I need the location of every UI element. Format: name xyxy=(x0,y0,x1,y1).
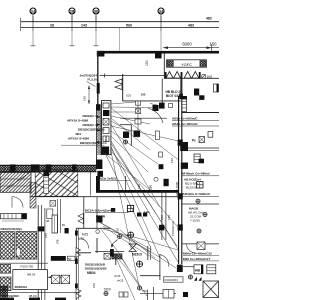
left wall lower double line a xyxy=(96,110,98,169)
wall76 pier 1 xyxy=(75,231,78,236)
extra homerun a xyxy=(111,148,178,262)
fixture mid bottom xyxy=(136,261,143,268)
bottom dark dash 2 xyxy=(29,298,40,300)
svg-text:48: 48 xyxy=(46,219,50,223)
double door symbol 2 xyxy=(184,72,199,79)
corridor end block xyxy=(177,265,183,272)
device column stem xyxy=(137,101,139,138)
room dark block xyxy=(123,132,129,139)
center room wall vertical 97 xyxy=(96,197,98,229)
device column box 2 xyxy=(136,109,141,114)
grid bubble 1 xyxy=(30,8,36,22)
svg-text:BP3+1: BP3+1 xyxy=(52,257,62,261)
symbol slash xyxy=(202,74,206,78)
leader to damper xyxy=(150,104,159,106)
stair block divider b xyxy=(0,185,31,187)
room divider line left xyxy=(89,169,91,195)
door bowtie on wall 76 upper xyxy=(76,248,81,258)
grid line tick C xyxy=(95,16,97,31)
top wall corner block xyxy=(97,51,105,57)
corridor damper 2 xyxy=(180,142,188,151)
fixture bottom right xyxy=(188,275,192,279)
left corridor line a xyxy=(37,205,39,300)
fan line 10 xyxy=(111,146,160,258)
left wall bottom block xyxy=(96,160,102,170)
band pier 3 xyxy=(46,164,52,172)
box bottom mid inner xyxy=(168,290,170,299)
fan line 5 xyxy=(111,121,131,132)
svg-text:Y.25/20: Y.25/20 xyxy=(190,219,200,223)
arrowhead to shaft 1 xyxy=(97,116,101,118)
svg-text:Pc: Pc xyxy=(192,139,196,143)
svg-text:AB3a Ce=580m/C: AB3a Ce=580m/C xyxy=(172,116,198,120)
svg-text:50: 50 xyxy=(68,257,72,261)
right room wall 244 xyxy=(182,243,219,245)
lower band hatch xyxy=(0,165,97,171)
HB dark block xyxy=(194,89,199,96)
svg-text:d=25: d=25 xyxy=(117,278,124,282)
grid extension line B xyxy=(71,31,73,46)
top right dim arrow right xyxy=(207,46,212,49)
room divider vline b xyxy=(165,190,167,240)
leader under strip xyxy=(2,220,24,222)
boxed fixture center xyxy=(127,205,133,211)
faint grid stub xyxy=(119,28,121,51)
small box mid xyxy=(159,152,163,157)
extra web line 6 xyxy=(99,222,150,252)
crossed box bottom 2 X xyxy=(61,275,69,283)
small X box left xyxy=(0,264,11,273)
dark squares pair center xyxy=(137,213,141,217)
grid extension line C xyxy=(95,31,97,46)
small box right of corridor xyxy=(47,209,53,219)
extra web line 2 xyxy=(111,124,160,207)
band pier 1 xyxy=(10,164,16,172)
svg-text:3x4(2)x 3x4(2): 3x4(2)x 3x4(2) xyxy=(96,176,116,180)
door wall bottom right vertical xyxy=(159,254,161,280)
stair flight strip xyxy=(30,183,36,209)
right room wall 150 xyxy=(188,149,219,151)
bottom right X box xyxy=(203,281,219,298)
wall horizontal 228 xyxy=(76,227,111,229)
door arc left xyxy=(12,197,23,208)
HB box dark edge xyxy=(201,265,203,274)
vline bottom mid xyxy=(153,287,155,300)
svg-text:D853(2)/3(2)/B2: D853(2)/3(2)/B2 xyxy=(85,267,107,271)
left corridor line b xyxy=(40,205,42,300)
grid line tick A xyxy=(32,16,34,31)
box bottom mid xyxy=(163,290,174,299)
corridor band thick wall xyxy=(96,190,179,193)
stair block divider xyxy=(0,178,31,180)
corridor damper 1 xyxy=(178,140,183,146)
svg-text:24: 24 xyxy=(31,9,36,14)
MC3A underline xyxy=(85,212,129,214)
svg-text:34: 34 xyxy=(159,9,164,14)
fan line 2 xyxy=(111,106,153,109)
device column box 2 cross xyxy=(136,109,141,114)
small circle room xyxy=(96,230,100,234)
small dark triangles xyxy=(194,277,202,281)
tall equipment box xyxy=(52,215,57,233)
svg-text:AB4b Ce=360m/C: AB4b Ce=360m/C xyxy=(172,122,198,126)
corridor band thin wall xyxy=(30,196,179,198)
extra diag bottom b xyxy=(120,256,147,296)
hall wall vertical 83 xyxy=(83,197,85,229)
long homerun curve 5 xyxy=(116,256,140,287)
svg-text:MC3A-3(2)x4(2)x4(2): MC3A-3(2)x4(2)x4(2) xyxy=(85,208,115,212)
wall junction pier xyxy=(179,94,183,100)
extra diag bottom a xyxy=(116,258,135,300)
bent leader arrowhead xyxy=(111,244,114,248)
Pc box xyxy=(199,137,204,143)
small eq box cross xyxy=(50,201,56,207)
svg-text:BL: BL xyxy=(62,223,66,227)
inner wall line top rooms xyxy=(100,75,165,77)
right band sill line xyxy=(164,77,219,79)
bent leader arrow xyxy=(112,240,118,248)
long homerun curve 3 xyxy=(100,228,128,268)
fixture right 4 xyxy=(196,199,200,203)
box next to HB xyxy=(207,265,216,274)
wall segment x97 low xyxy=(96,238,98,253)
equipment strip ticks xyxy=(4,214,16,219)
extra web line 5 xyxy=(96,220,176,268)
hall hatch room xyxy=(35,170,78,197)
bottom left hatch strip low xyxy=(0,277,11,291)
right room door arc 244 xyxy=(187,244,196,253)
svg-text:150: 150 xyxy=(83,96,87,101)
top right dim line xyxy=(163,47,219,49)
small box mid room xyxy=(169,104,173,108)
grid extension line D xyxy=(160,31,162,51)
right tray dark blob xyxy=(199,159,204,164)
svg-text:150: 150 xyxy=(92,283,96,288)
door swing bottom right xyxy=(160,255,169,267)
device column box 3 xyxy=(135,119,141,124)
svg-text:HB: HB xyxy=(195,269,200,273)
svg-text:ARY3A S=85M: ARY3A S=85M xyxy=(68,137,89,141)
bottom right row 2 underline xyxy=(183,260,219,262)
svg-text:03/200/04: 03/200/04 xyxy=(165,278,179,282)
fixture bottom 1 xyxy=(137,286,141,290)
lower band wall line b xyxy=(0,171,97,173)
BP3 label box xyxy=(51,256,66,261)
fan line 4 xyxy=(111,116,150,124)
door leaf left xyxy=(11,197,13,208)
extra homerun b xyxy=(106,155,150,246)
arrowhead to shaft 4 xyxy=(97,141,101,143)
room corner wall vertical xyxy=(130,125,132,147)
dimension band line upper xyxy=(21,21,219,23)
damper block at 162 xyxy=(159,103,165,109)
fixture right 5 xyxy=(203,212,207,216)
svg-text:ARY3A S=85M: ARY3A S=85M xyxy=(67,119,88,123)
right room wall 112 xyxy=(182,112,219,114)
tray under HB room xyxy=(182,98,187,111)
interior wall vertical at 122 xyxy=(122,74,124,101)
svg-text:3200 1500: 3200 1500 xyxy=(175,181,179,196)
bottom mid vline xyxy=(147,290,149,300)
dim arrow r xyxy=(60,276,64,278)
dim arrow l xyxy=(47,276,51,278)
small box pair bottom a xyxy=(119,292,123,297)
left wall mid segment xyxy=(97,94,99,105)
bottom left corner blob xyxy=(0,286,8,297)
grid extension tick A xyxy=(31,45,36,47)
extra homerun c xyxy=(111,143,177,246)
box cross center xyxy=(104,253,111,259)
hall ladder cap xyxy=(43,170,49,176)
fan line 1 xyxy=(111,102,136,104)
tick on inner line xyxy=(104,74,106,78)
room corner wall horizontal xyxy=(120,124,131,126)
right tray rungs xyxy=(194,157,200,160)
svg-text:DB3(2)C(3)BV(3x4): DB3(2)C(3)BV(3x4) xyxy=(78,128,105,132)
dim arrows bottom xyxy=(47,276,64,278)
fixture center low xyxy=(117,234,121,238)
room rect bottom left xyxy=(13,270,48,290)
left room wall vertical 76 xyxy=(75,228,77,300)
svg-text:BL25/20: BL25/20 xyxy=(186,185,198,189)
right box with cross xyxy=(197,242,205,250)
extra web line 3 xyxy=(103,152,150,190)
tray under HB rungs xyxy=(182,101,187,108)
small eq boxes xyxy=(50,201,56,207)
wall76 pier 3 xyxy=(75,284,78,289)
small box upper right xyxy=(208,132,213,138)
left wall lower hatch xyxy=(97,111,101,156)
device column top box xyxy=(136,101,141,105)
grid extension tick B xyxy=(70,45,75,47)
svg-text:HB.03: HB.03 xyxy=(27,273,36,277)
extra web line 4 xyxy=(111,118,150,150)
wall76 pier 2 xyxy=(75,259,78,264)
left vertical dim arrow down xyxy=(88,101,90,105)
door post 1 xyxy=(165,72,167,78)
building top wall xyxy=(97,51,219,54)
door wall bottom right horizontal xyxy=(140,275,161,277)
fan line 6 xyxy=(111,126,179,141)
top right dim tick xyxy=(211,44,213,52)
svg-text:M15/2I: M15/2I xyxy=(132,252,142,256)
annotation arrow 120 xyxy=(87,82,96,87)
door post 2 xyxy=(181,72,183,78)
hall ladder rungs xyxy=(44,174,49,188)
right room wall 148 xyxy=(188,147,219,149)
dark squares pair center b xyxy=(143,213,147,217)
shaft box 2 dark xyxy=(103,110,109,116)
black equipment block xyxy=(153,105,159,111)
svg-text:M15: M15 xyxy=(82,233,88,237)
hline 263 xyxy=(0,262,48,264)
dimension band end tick xyxy=(19,18,21,31)
svg-text:B/OT 034: B/OT 034 xyxy=(166,94,180,98)
svg-text:166: 166 xyxy=(170,158,174,163)
long homerun curve 4 xyxy=(110,150,177,226)
wall76 inner line xyxy=(77,228,79,300)
shaft box 5 xyxy=(103,136,109,142)
svg-text:DB3(2)C 3x: DB3(2)C 3x xyxy=(82,123,98,127)
interior wall horizontal at 101 xyxy=(123,100,181,102)
grid bubble 2 xyxy=(69,8,75,22)
equipment strip bottom left xyxy=(1,214,27,219)
svg-text:483: 483 xyxy=(188,24,194,28)
svg-text:M-Wash Ce=580m/: M-Wash Ce=580m/ xyxy=(183,172,210,176)
svg-text:1500: 1500 xyxy=(104,287,111,291)
left vertical dim line xyxy=(88,86,90,105)
svg-text:150: 150 xyxy=(145,60,149,66)
right box cross xyxy=(197,242,205,250)
fan line 7 xyxy=(111,131,158,164)
corridor wall left line xyxy=(178,96,180,264)
svg-text:P150 750: P150 750 xyxy=(21,265,34,269)
fan line 8 xyxy=(111,136,148,172)
long homerun curve 1 xyxy=(103,229,178,250)
HB box bottom right xyxy=(194,265,203,274)
grid line tick D xyxy=(160,16,162,31)
band pier 5 xyxy=(97,171,103,177)
fan line 3 xyxy=(111,111,136,113)
grid bubble 4 xyxy=(158,8,164,22)
band pier 2 xyxy=(31,164,39,172)
dark square in hatch 2 xyxy=(164,179,169,186)
box next rungs xyxy=(207,268,216,271)
extra web line 1 xyxy=(111,108,179,160)
shaft box 3 xyxy=(103,119,109,126)
fixture room xyxy=(127,232,134,239)
left wall lower double line b xyxy=(100,111,102,156)
svg-text:P5: P5 xyxy=(56,239,60,243)
svg-text:YGFC: YGFC xyxy=(181,62,192,67)
grid bubble 3 xyxy=(93,8,99,22)
small box pair bottom b xyxy=(124,292,128,297)
extra web line 8 xyxy=(125,235,152,250)
hall ladder tray xyxy=(44,170,49,193)
svg-text:6000: 6000 xyxy=(182,42,192,47)
right band wall vertical at 164 xyxy=(163,54,165,79)
corridor band left pier xyxy=(96,176,100,193)
dark block center xyxy=(96,216,102,223)
shaft box 3 cross xyxy=(103,119,109,126)
svg-text:483: 483 xyxy=(206,16,212,20)
corridor damper 5 xyxy=(178,224,183,230)
small box left wall xyxy=(155,131,159,139)
dark square in hatch 3 xyxy=(159,164,164,169)
bottom mid line 294 xyxy=(140,293,176,295)
shaft box 1 xyxy=(103,103,109,108)
grid line tick B xyxy=(71,16,73,31)
left text block underline xyxy=(61,144,105,146)
X hatch block A xyxy=(0,232,14,260)
YGFC end hatch left xyxy=(167,61,173,67)
svg-text:FL3.20: FL3.20 xyxy=(87,78,97,82)
door bowtie on wall 83 xyxy=(78,214,83,224)
left corridor wall cap xyxy=(38,226,45,231)
mid wall horizontal 118 xyxy=(120,117,167,119)
HB dark block b xyxy=(199,95,204,100)
svg-text:105: 105 xyxy=(126,94,131,98)
dark square in hatch 1 xyxy=(159,225,164,231)
corridor damper 3 xyxy=(181,163,188,169)
svg-text:28: 28 xyxy=(50,24,54,28)
door post 3 xyxy=(199,72,201,78)
wall pair left of door b xyxy=(149,246,151,260)
svg-text:28: 28 xyxy=(70,9,75,14)
pipes pair xyxy=(58,199,61,233)
symbol circle slash 105 xyxy=(202,74,206,78)
svg-text:155: 155 xyxy=(44,233,48,238)
dark rect bottom mid xyxy=(183,292,188,297)
shaft enclosure xyxy=(102,101,111,155)
hline 292 xyxy=(0,291,80,293)
svg-text:30: 30 xyxy=(94,9,99,14)
device column dark blob xyxy=(134,131,141,137)
arrowhead to shaft 2 xyxy=(97,123,101,125)
right text row 1 underline xyxy=(172,119,219,121)
right edge small box xyxy=(214,84,219,92)
door bowtie right xyxy=(129,244,136,251)
box 50 xyxy=(67,256,75,260)
room divider vline a xyxy=(161,190,163,240)
fan line 9 xyxy=(111,141,179,250)
svg-text:MB04: MB04 xyxy=(87,271,96,275)
grid extension line A xyxy=(32,31,34,46)
arrowhead to shaft 3 xyxy=(97,129,101,131)
door leaf triangles at wall 122 xyxy=(115,79,122,90)
svg-text:560: 560 xyxy=(126,24,132,28)
svg-text:143: 143 xyxy=(81,24,87,28)
label box bottom xyxy=(164,277,184,282)
svg-text:150: 150 xyxy=(160,215,164,220)
shaft bottom dark block xyxy=(102,147,110,155)
fixture right room low xyxy=(197,229,201,233)
svg-text:08/02/3H: 08/02/3H xyxy=(15,285,27,289)
wall pair left of door a xyxy=(147,246,149,260)
tall equipment inner xyxy=(54,215,56,233)
bottom dark dash 3 xyxy=(55,298,66,300)
svg-text:D82(2)C/3(2)Qx: D82(2)C/3(2)Qx xyxy=(1,227,23,231)
room divider wall at 162 xyxy=(161,79,163,104)
svg-text:49/4: 49/4 xyxy=(75,132,81,136)
dark block under xyxy=(65,228,69,233)
X hatch block B xyxy=(16,232,37,260)
right room wall 204 xyxy=(182,203,219,205)
wall 254 segment xyxy=(112,254,122,259)
svg-text:105: 105 xyxy=(206,75,212,79)
M-Wash underline xyxy=(183,175,220,177)
crossed box bottom 1 xyxy=(51,275,59,283)
text row above band underline xyxy=(96,179,130,181)
small circle symbol xyxy=(154,177,158,181)
white oval in hatch xyxy=(16,248,20,257)
HB room divider wall xyxy=(180,79,182,97)
corridor wall right line xyxy=(181,79,183,265)
svg-text:150: 150 xyxy=(210,42,218,47)
top right dim arrow left xyxy=(163,46,168,49)
door bowtie on wall 76 lower xyxy=(76,289,81,299)
right edge dark tick xyxy=(217,84,219,92)
stair block diagonal xyxy=(2,173,29,192)
equipment strip cap xyxy=(21,213,26,219)
left wall pier block xyxy=(96,104,101,110)
fixture right 3 xyxy=(197,182,203,188)
svg-text:AB3(4)x G=580m/C: AB3(4)x G=580m/C xyxy=(183,192,212,196)
door arc room visible xyxy=(81,239,89,249)
grid extension tick C xyxy=(94,45,99,47)
svg-text:105: 105 xyxy=(141,92,146,96)
svg-text:DB3(2)C(3)BV3x4: DB3(2)C(3)BV3x4 xyxy=(80,141,105,145)
